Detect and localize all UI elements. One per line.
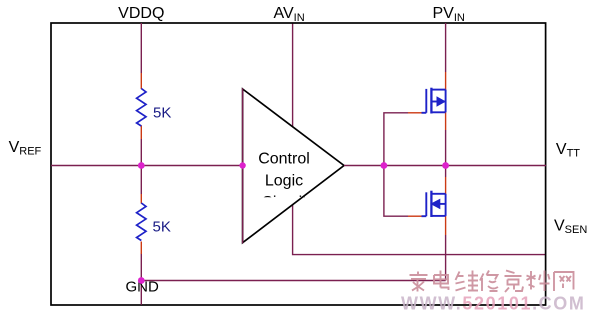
- svg-text:VDDQ: VDDQ: [118, 5, 164, 22]
- wire GND horizontal: [141, 280, 445, 282]
- wire red stub source Q2: [445, 216, 447, 235]
- char 1 家: [410, 272, 428, 292]
- node junction dot VREF/R divider: [138, 162, 145, 169]
- wire gate Q2: down from junction then right: [384, 166, 408, 217]
- transistor Q2 (lower MOSFET): [422, 191, 446, 217]
- wire VDDQ vertical (purple parts): [140, 23, 142, 73]
- char 6 料: [527, 271, 550, 292]
- wire red stub below resistor R2: [140, 242, 142, 255]
- wire red stub above resistor R2: [140, 194, 142, 204]
- wire red stub drain Q2: [445, 177, 447, 194]
- svg-text:Logic: Logic: [265, 173, 303, 190]
- watermark: pseudo hanzi strokes (家电维修资料网): [410, 271, 574, 293]
- wire red stub gate Q2: [408, 215, 422, 217]
- wire red stub drain Q1: [445, 72, 447, 90]
- svg-text:5K: 5K: [153, 219, 171, 236]
- char 7 网: [554, 272, 574, 291]
- svg-text:Control: Control: [258, 151, 310, 168]
- transistor Q1 (upper MOSFET): [422, 88, 446, 114]
- node junction dot GND: [138, 277, 145, 284]
- wire red stub gate Q1: [408, 112, 422, 114]
- node junction dot triangle input: [239, 162, 245, 168]
- resistor R2 5K (lower zigzag): [137, 203, 146, 241]
- wire red stub source Q1: [445, 112, 447, 130]
- char 3 维: [456, 271, 479, 291]
- svg-text:5K: 5K: [153, 105, 171, 122]
- wire gate Q1: up from junction then right: [384, 113, 408, 166]
- wire red stub above resistor R1: [140, 73, 142, 89]
- wire VREF horizontal: [51, 165, 243, 167]
- wire VTT horizontal from apex to right border: [344, 165, 546, 167]
- char 5 资: [505, 271, 524, 293]
- node junction dot gates: [381, 162, 388, 169]
- op-amp U1 Control Logic Circuit triangle: [243, 89, 344, 243]
- svg-text:WWW.520101.COM: WWW.520101.COM: [401, 294, 585, 314]
- node junction dot VTT: [442, 162, 449, 169]
- char 2 电: [434, 271, 449, 291]
- char 4 修: [480, 271, 498, 292]
- wire red stub below resistor R1: [140, 126, 142, 140]
- wire AVIN vertical lower + VSEN horizontal: [293, 199, 546, 255]
- wire PVIN vertical (purple parts): [445, 23, 447, 72]
- wire AVIN vertical upper: [292, 23, 294, 128]
- resistor R1 5K (upper zigzag): [137, 89, 146, 127]
- wire triangle left edge (purple): [242, 88, 244, 243]
- outer border box: [51, 23, 546, 305]
